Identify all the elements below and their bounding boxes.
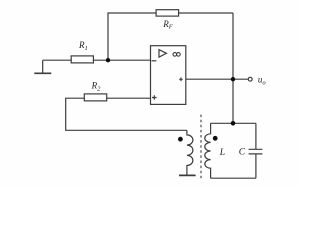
resistor RF xyxy=(156,10,179,16)
inductor L: transformer secondary winding xyxy=(205,123,211,178)
op-amp U1 xyxy=(151,46,186,105)
node: secondary phasing dot xyxy=(213,136,218,141)
wire: R2 to op-amp non-inverting input xyxy=(107,97,151,99)
wire: op-amp output xyxy=(186,78,249,80)
ground: primary bottom xyxy=(179,174,196,176)
op-amp triangle symbol xyxy=(159,50,166,58)
wire: tank top xyxy=(211,122,256,124)
wire: feedback left vertical xyxy=(108,13,156,60)
op-amp minus input label xyxy=(152,60,157,62)
capacitor C xyxy=(249,123,263,178)
node: output junction xyxy=(231,77,235,81)
op-amp plus input label xyxy=(152,95,157,100)
node: primary phasing dot xyxy=(178,137,183,142)
terminal uo xyxy=(248,77,252,81)
wire: R2 left down to transformer primary xyxy=(66,98,187,130)
op-amp infinity symbol xyxy=(173,53,177,57)
ground xyxy=(34,72,51,74)
wire: R1 to op-amp inverting input xyxy=(93,59,150,61)
wire: right vertical to output node and tank xyxy=(232,13,234,123)
node: tank top junction xyxy=(231,121,236,126)
svg-text:R2: R2 xyxy=(91,81,102,93)
transformer core (dashed) xyxy=(200,115,202,179)
node: R1 / feedback junction xyxy=(106,58,110,62)
svg-text:RF: RF xyxy=(162,19,174,31)
inductor: transformer primary winding xyxy=(187,130,193,174)
svg-text:R1: R1 xyxy=(78,40,88,52)
wire: tank bottom xyxy=(211,177,256,179)
wire: ground stub and R1 left lead xyxy=(43,60,71,72)
resistor R2 xyxy=(84,94,106,101)
wire: feedback top right xyxy=(179,12,233,14)
op-amp output plus label xyxy=(179,78,183,82)
resistor R1 xyxy=(71,56,93,63)
svg-text:uo: uo xyxy=(258,75,267,87)
svg-text:C: C xyxy=(239,148,246,158)
svg-text:L: L xyxy=(219,148,225,158)
